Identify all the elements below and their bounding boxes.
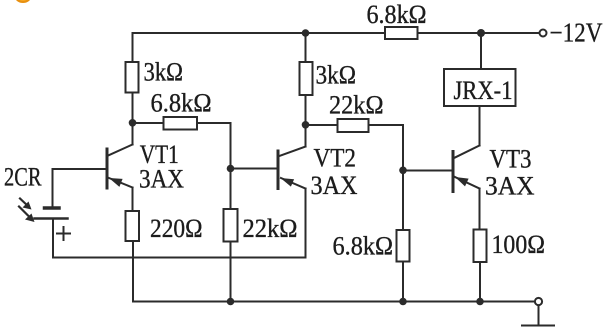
- node dot VT2 base column: [227, 165, 235, 173]
- wire photocell top lead: [52, 169, 54, 206]
- wire bottom rail: [134, 301, 535, 303]
- node dot VT2 collector: [302, 121, 310, 129]
- transistor Q2 collector diagonal: [278, 147, 306, 157]
- node dot top rail at VT2 column: [302, 29, 310, 37]
- plus sign vertical: [63, 227, 65, 240]
- transistor Q3 emitter diagonal: [455, 177, 480, 189]
- wire VT3 emitter down: [479, 189, 481, 230]
- wire 22k2 right lead to column: [369, 125, 404, 230]
- node dot top rail at relay column: [477, 29, 485, 37]
- wire feedback 6.8k right lead: [197, 123, 231, 209]
- transistor Q2 emitter diagonal: [281, 178, 306, 189]
- relay JRX-1 box: [444, 69, 516, 106]
- wire VT1 base: [53, 168, 108, 170]
- node dot VT3 base column: [399, 167, 407, 175]
- node dot bottom rail 6.8k: [399, 298, 407, 306]
- wire feedback 6.8k left lead: [133, 122, 164, 124]
- transistor Q3 base bar: [452, 152, 455, 192]
- svg-text:VT2: VT2: [314, 144, 357, 173]
- svg-text:3AX: 3AX: [485, 172, 535, 201]
- resistor 6.8k top box: [385, 27, 418, 39]
- wire 220 lower lead: [132, 241, 134, 302]
- transistor Q3 collector diagonal: [453, 146, 480, 159]
- battery bottom plate long: [35, 217, 68, 220]
- svg-text:22kΩ: 22kΩ: [329, 91, 384, 120]
- resistor 100 box: [474, 230, 487, 263]
- svg-text:−12V: −12V: [550, 18, 603, 48]
- wire 100 lower lead: [479, 262, 481, 302]
- wire 22k2 left lead: [306, 124, 338, 126]
- wire 22k1 lower lead: [230, 242, 232, 302]
- resistor 22k horizontal box: [338, 119, 369, 132]
- node dot bottom rail 22k: [227, 298, 235, 306]
- svg-text:6.8kΩ: 6.8kΩ: [333, 232, 394, 261]
- light arrow 2 shaft: [19, 207, 31, 219]
- transistor Q1 emitter diagonal: [109, 178, 133, 188]
- wire VT2 emitter down and across to battery: [53, 189, 306, 258]
- wire top rail right segment: [418, 32, 540, 34]
- battery top plate short thick: [45, 206, 60, 210]
- wire 3k right lower lead: [305, 95, 307, 125]
- svg-text:2CR: 2CR: [4, 163, 42, 192]
- svg-text:3AX: 3AX: [139, 165, 184, 194]
- arrowhead VT3 emitter: [455, 177, 469, 186]
- resistor 3k left box: [126, 62, 139, 93]
- wire VT2 collector up: [305, 125, 307, 147]
- svg-text:3kΩ: 3kΩ: [144, 58, 184, 87]
- ground terminal circle: [535, 298, 542, 305]
- wire left column mid: [132, 93, 134, 145]
- transistor Q1 base bar: [106, 149, 109, 188]
- resistor 3k right box: [300, 62, 313, 95]
- resistor 6.8k feedback box: [164, 117, 198, 130]
- light arrow 1 head: [23, 202, 32, 210]
- wire VT3 base: [403, 170, 453, 172]
- terminal circle -12V: [540, 30, 547, 37]
- arrowhead VT1 emitter: [109, 178, 123, 187]
- svg-text:220Ω: 220Ω: [150, 214, 203, 243]
- svg-text:22kΩ: 22kΩ: [243, 214, 298, 243]
- transistor Q2 base bar: [277, 151, 280, 189]
- wire 3k right upper lead: [305, 33, 307, 62]
- wire VT2 base: [231, 168, 279, 170]
- svg-text:3kΩ: 3kΩ: [316, 61, 357, 90]
- svg-text:6.8kΩ: 6.8kΩ: [151, 89, 212, 118]
- ground riser: [538, 305, 540, 326]
- svg-text:6.8kΩ: 6.8kΩ: [367, 0, 427, 29]
- node dot VT1 collector: [129, 119, 137, 127]
- resistor 220 box: [126, 211, 140, 241]
- svg-text:100Ω: 100Ω: [492, 230, 546, 259]
- svg-text:VT3: VT3: [490, 145, 532, 174]
- ground bar: [522, 325, 554, 327]
- plus sign horizontal: [57, 233, 70, 235]
- resistor 22k left box: [224, 209, 238, 242]
- wire relay to top rail: [480, 33, 482, 69]
- node dot bottom rail 100: [476, 298, 484, 306]
- svg-text:3AX: 3AX: [311, 171, 358, 200]
- light arrow 2 head: [25, 214, 35, 223]
- resistor 6.8k lower box: [397, 230, 410, 262]
- wire top rail left segment: [133, 32, 386, 34]
- wire VT1 emitter down: [132, 188, 134, 212]
- wire VT3 collector to relay: [479, 106, 481, 146]
- arrowhead VT2 emitter: [281, 178, 295, 187]
- light arrow 1 shaft: [20, 199, 29, 208]
- svg-text:JRX-1: JRX-1: [454, 76, 513, 105]
- wire 6.8k lower lead: [402, 262, 404, 302]
- transistor Q1 collector diagonal: [107, 145, 133, 157]
- wire left column upper: [132, 33, 134, 62]
- orange dot top left: [15, 0, 31, 3]
